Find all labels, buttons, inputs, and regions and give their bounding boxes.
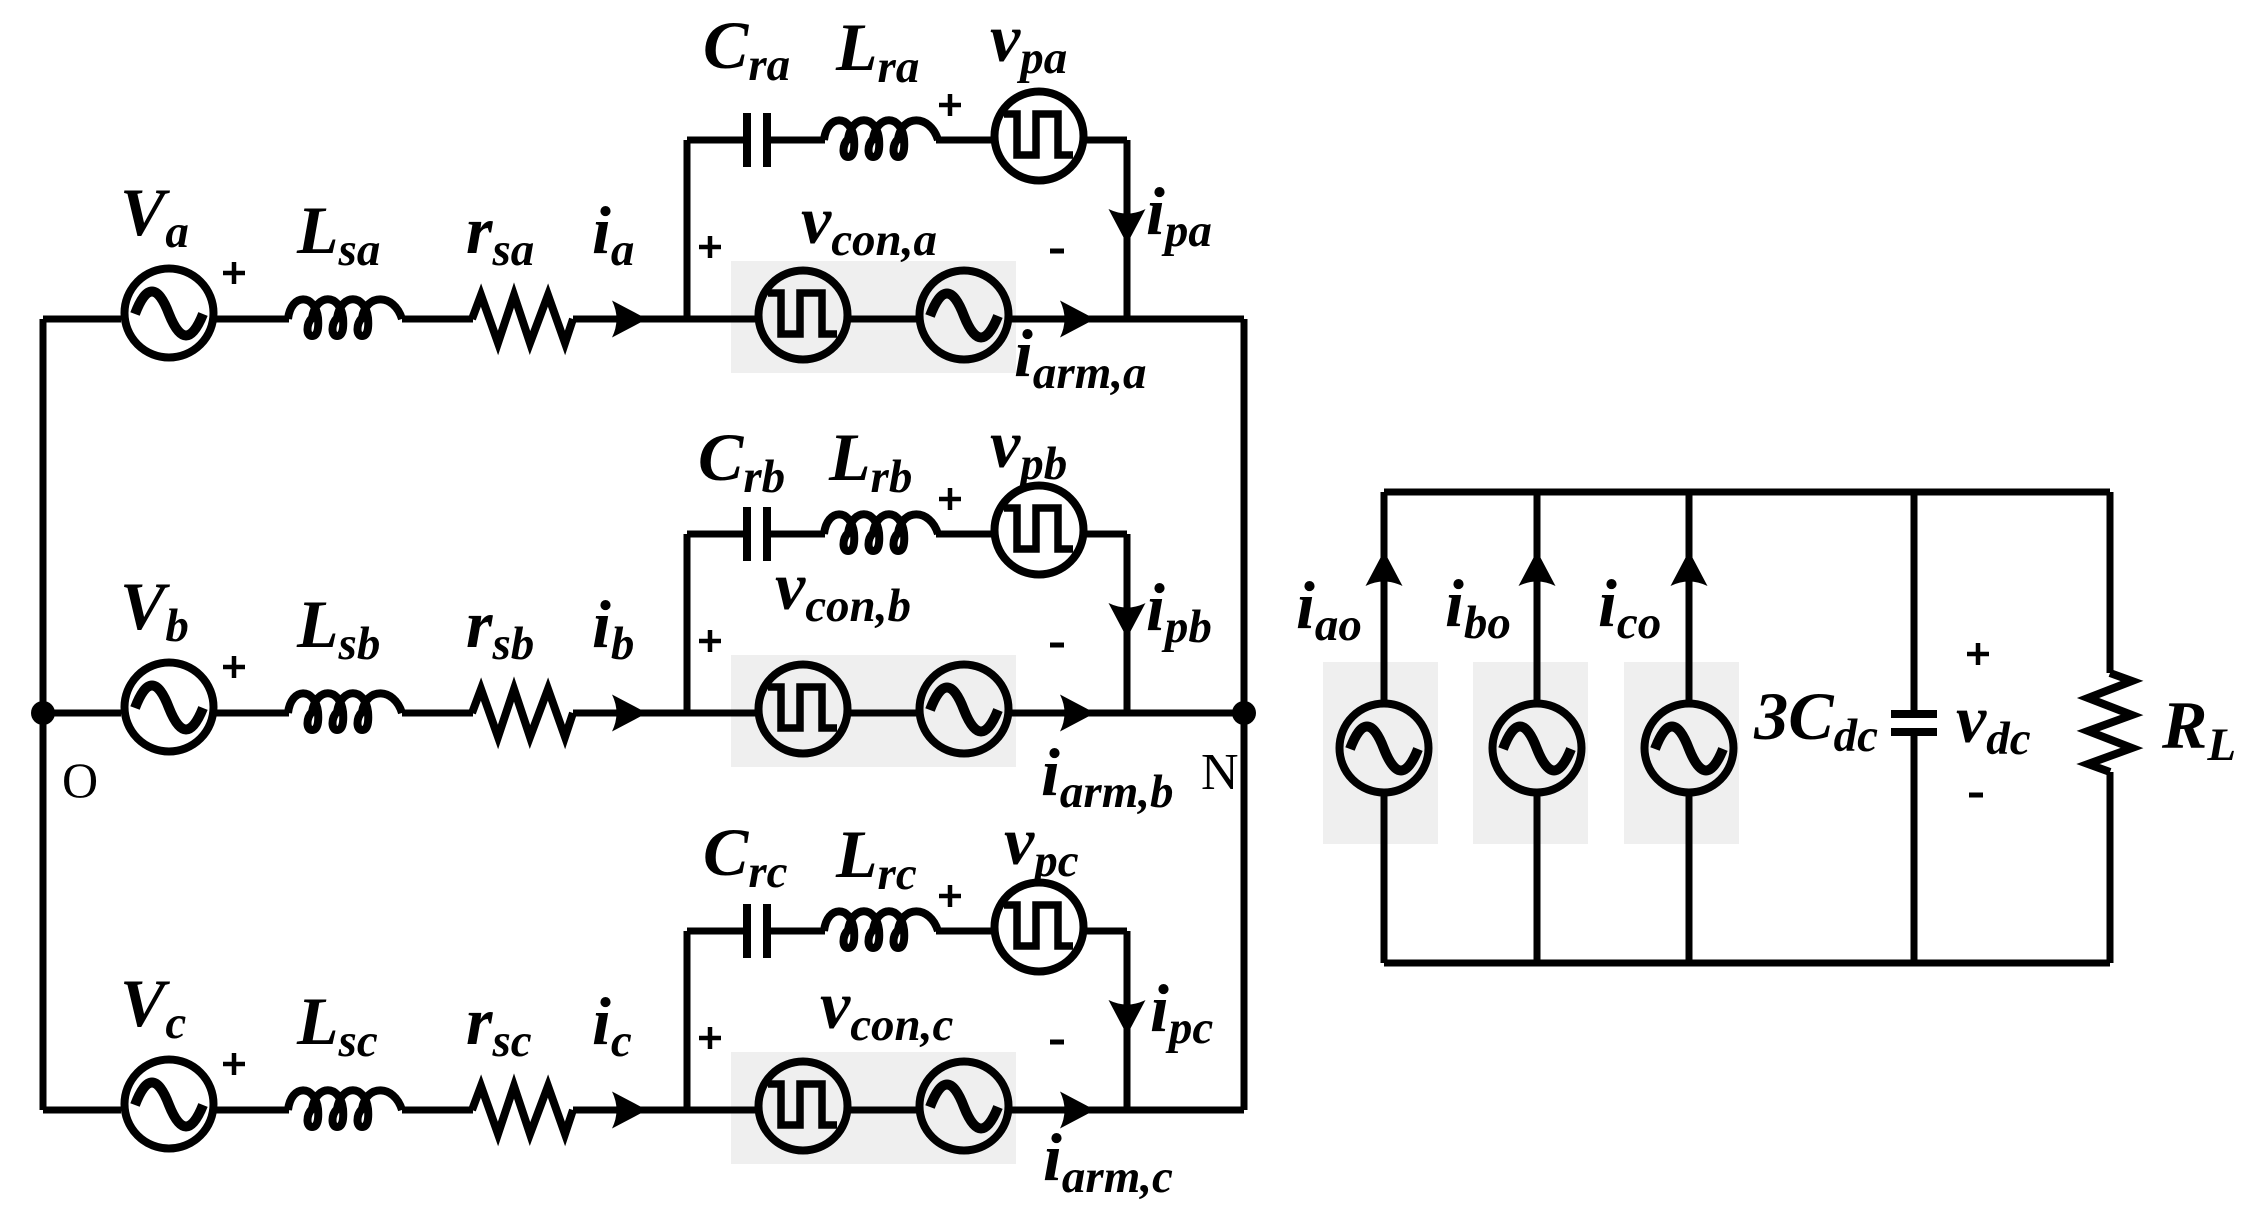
svg-text:N: N [1201, 744, 1239, 801]
svg-text:O: O [62, 752, 98, 808]
